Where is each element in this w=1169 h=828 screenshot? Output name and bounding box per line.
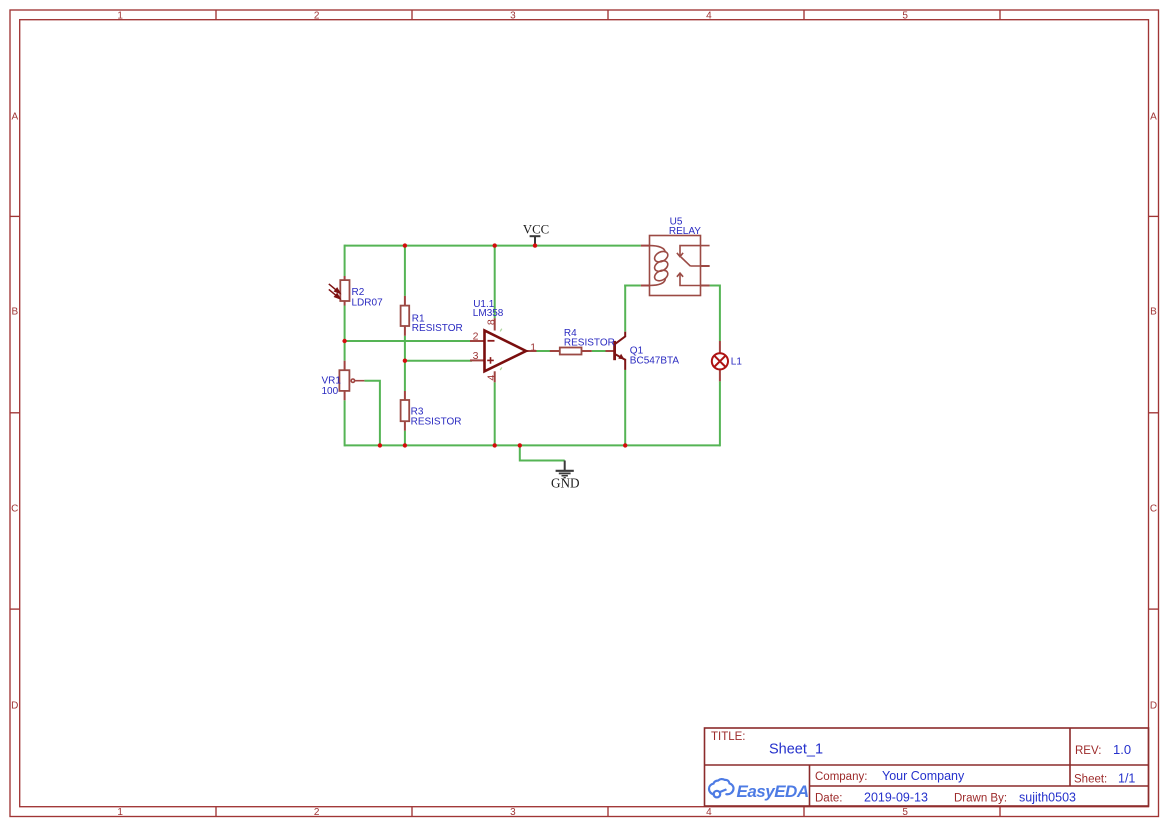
svg-text:RESISTOR: RESISTOR: [411, 416, 462, 427]
svg-text:A: A: [11, 112, 18, 123]
node top R1: [403, 243, 407, 247]
EasyEDA logo cloud: [709, 779, 734, 797]
wire VR1 wiper to bottom rail: [364, 381, 380, 446]
svg-text:D: D: [11, 701, 18, 712]
svg-text:4: 4: [706, 807, 712, 818]
svg-text:VCC: VCC: [523, 223, 549, 237]
lamp pin stubs: [719, 341, 721, 354]
potentiometer VR1 wiper: [351, 379, 364, 382]
svg-text:3: 3: [510, 807, 516, 818]
Q1 emitter arrow: [618, 354, 624, 360]
op-amp plus input mark: [487, 357, 494, 364]
svg-text:4: 4: [485, 375, 497, 381]
resistor R2 LDR body: [340, 280, 349, 301]
svg-text:2: 2: [314, 11, 320, 22]
op-amp output pin 1 stub: [526, 350, 537, 352]
relay switch contacts: [677, 246, 710, 286]
svg-text:D: D: [1150, 701, 1157, 712]
svg-text:1: 1: [117, 807, 123, 818]
wire op-amp pin2: [345, 340, 472, 342]
VR1 pin stubs: [344, 361, 346, 371]
svg-text:LDR07: LDR07: [352, 297, 384, 308]
svg-text:RESISTOR: RESISTOR: [564, 338, 615, 349]
wire Q1 emitter to bottom rail: [624, 370, 626, 446]
wire op-amp pin4 ground: [494, 382, 496, 445]
wire R4 to Q1 base: [592, 350, 606, 352]
component labels: [322, 217, 743, 428]
svg-text:Drawn By:: Drawn By:: [954, 793, 1007, 805]
wire left branch vertical: [344, 245, 346, 447]
svg-text:RELAY: RELAY: [669, 226, 701, 237]
wire top rail VCC: [345, 245, 641, 247]
wire GND tap: [520, 445, 565, 460]
wire R1 R3 branch: [404, 246, 406, 446]
svg-text:1.0: 1.0: [1113, 742, 1131, 757]
wire bottom rail: [345, 444, 720, 446]
op-amp pin 8 stub: [494, 318, 496, 330]
relay contact pin stubs: [700, 265, 710, 267]
svg-text:1: 1: [117, 11, 123, 22]
wire op-amp pin3: [405, 360, 472, 362]
lamp L1: [712, 353, 728, 369]
SCHEMATIC: [322, 217, 743, 491]
wire Q1 collector to relay: [624, 285, 641, 332]
op-amp U1 triangle: [485, 331, 527, 372]
svg-text:B: B: [11, 307, 18, 318]
svg-text:2019-09-13: 2019-09-13: [864, 791, 928, 805]
GND ground symbol: [556, 461, 574, 478]
svg-text:3: 3: [510, 11, 516, 22]
svg-text:100: 100: [322, 386, 339, 397]
wire relay to lamp: [710, 285, 720, 447]
node bottom opamp pin4: [493, 443, 497, 447]
node bottom GND: [518, 443, 522, 447]
wire op-amp output to R4: [536, 350, 550, 352]
svg-text:3: 3: [473, 350, 479, 362]
svg-text:Sheet_1: Sheet_1: [769, 742, 823, 758]
R4 pin stubs: [550, 350, 561, 352]
svg-text:B: B: [1150, 307, 1157, 318]
svg-text:BC547BTA: BC547BTA: [630, 356, 680, 367]
node bottom R3: [403, 443, 407, 447]
svg-text:1: 1: [530, 341, 536, 353]
svg-text:EasyEDA: EasyEDA: [737, 782, 809, 801]
node VCC tap: [533, 243, 537, 247]
svg-text:VR1: VR1: [322, 376, 342, 387]
R3 pin stubs: [404, 391, 406, 401]
R2 pin stubs: [344, 276, 346, 281]
op-amp pin 4 stub: [494, 371, 496, 382]
svg-text:5: 5: [902, 11, 908, 22]
svg-text:C: C: [1150, 504, 1157, 515]
svg-text:sujith0503: sujith0503: [1019, 791, 1076, 805]
pin stubs: [345, 246, 720, 431]
svg-text:TITLE:: TITLE:: [711, 731, 746, 743]
op-amp pin 3 stub: [470, 359, 485, 361]
svg-text:GND: GND: [551, 476, 580, 491]
op-amp alt-unit tick marks: [500, 329, 502, 370]
R1 pin stubs: [404, 296, 406, 307]
resistor R1 body: [401, 306, 410, 326]
svg-text:Your Company: Your Company: [882, 769, 965, 783]
svg-text:C: C: [11, 504, 18, 515]
svg-text:Company:: Company:: [815, 771, 867, 783]
svg-text:Sheet:: Sheet:: [1074, 774, 1107, 786]
junction dots: [342, 243, 627, 447]
svg-text:4: 4: [706, 11, 712, 22]
svg-text:2: 2: [314, 807, 320, 818]
op-amp pin 2 stub: [470, 340, 485, 342]
VCC power symbol: [530, 236, 541, 245]
relay coil pin stubs: [641, 245, 650, 247]
node bottom VR1: [378, 443, 382, 447]
svg-text:1/1: 1/1: [1118, 772, 1135, 786]
node pin2 left: [342, 339, 346, 343]
svg-text:L1: L1: [731, 357, 743, 368]
svg-text:RESISTOR: RESISTOR: [412, 323, 463, 334]
node pin3 R1: [403, 359, 407, 363]
svg-text:2: 2: [473, 331, 479, 343]
relay coil: [650, 246, 670, 286]
svg-text:Date:: Date:: [815, 793, 843, 805]
resistor R4 body: [560, 348, 582, 355]
wire op-amp pin8 supply: [494, 246, 496, 319]
node bottom emitter: [623, 443, 627, 447]
node top opamp supply: [493, 243, 497, 247]
transistor Q1: [615, 332, 626, 370]
svg-text:A: A: [1150, 112, 1157, 123]
Q1 base pin stub: [606, 350, 614, 352]
LDR light arrows: [329, 284, 340, 299]
op-amp minus input mark: [488, 340, 495, 342]
relay U5 box: [650, 236, 701, 296]
svg-text:5: 5: [902, 807, 908, 818]
TITLE BLOCK: [705, 728, 1149, 806]
resistor R3 body: [401, 400, 410, 421]
svg-text:8: 8: [485, 319, 497, 325]
potentiometer VR1 body: [339, 370, 349, 391]
svg-text:REV:: REV:: [1075, 745, 1101, 757]
svg-text:LM358: LM358: [473, 308, 504, 319]
